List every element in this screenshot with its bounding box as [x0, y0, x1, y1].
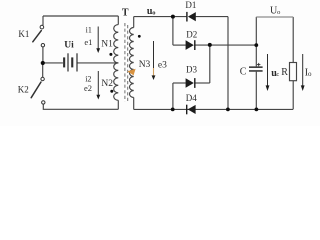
svg-text:o: o	[308, 70, 312, 78]
svg-text:C: C	[240, 67, 247, 78]
svg-text:R: R	[281, 67, 288, 78]
svg-text:N1: N1	[101, 40, 113, 50]
svg-text:K1: K1	[18, 29, 29, 39]
svg-text:D4: D4	[186, 93, 197, 103]
svg-text:D2: D2	[186, 30, 197, 40]
svg-text:N2: N2	[101, 79, 113, 89]
svg-text:o: o	[277, 9, 280, 16]
svg-text:c: c	[276, 71, 279, 78]
svg-text:o: o	[152, 10, 155, 17]
svg-text:e2: e2	[84, 83, 92, 93]
svg-text:Ui: Ui	[64, 41, 74, 51]
svg-text:e1: e1	[84, 37, 92, 47]
svg-text:D3: D3	[186, 65, 197, 75]
svg-text:T: T	[122, 8, 129, 19]
svg-text:N3: N3	[139, 60, 151, 70]
svg-text:e3: e3	[158, 60, 167, 70]
svg-text:D1: D1	[185, 0, 196, 10]
svg-text:K2: K2	[18, 84, 29, 94]
svg-text:i1: i1	[86, 26, 92, 35]
